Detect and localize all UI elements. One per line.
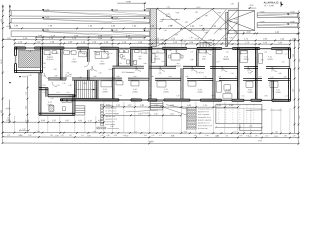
svg-text:+2,98: +2,98 [175,12,179,14]
svg-text:1,00: 1,00 [42,75,45,77]
svg-text:1,50: 1,50 [264,51,267,53]
window at top wall x=152 [152,47,162,49]
bottom wall left return [59,99,61,101]
svg-text:2,10: 2,10 [68,76,71,78]
svg-text:+1,98: +1,98 [290,21,294,23]
svg-text:Szoba: Szoba [102,91,107,93]
svg-text:0,60: 0,60 [114,135,117,137]
left vertical dimension line 2 [9,5,11,29]
svg-text:1,05: 1,05 [241,95,244,97]
svg-text:+2,98: +2,98 [174,34,178,36]
terrace bottom right [216,104,262,124]
svg-text:1,35: 1,35 [154,113,158,115]
svg-text:3,60: 3,60 [299,89,300,92]
roof beam bar 2 [11,18,150,23]
terrace left hatched wall strip [150,9,157,47]
svg-text:0,60: 0,60 [233,131,236,133]
svg-text:2,08: 2,08 [108,69,111,71]
bottom chain under lower wing [3,121,104,123]
svg-text:1,10: 1,10 [26,92,28,95]
svg-text:2,25: 2,25 [218,76,221,78]
window at bottom wall x=261.5 [261,99,271,101]
svg-text:1,50: 1,50 [195,12,198,14]
svg-text:0,90: 0,90 [169,50,172,52]
bottom chain under main body [104,106,238,108]
window at top wall x=25.5 [26,47,35,49]
svg-text:0,90: 0,90 [185,76,188,78]
svg-text:+4,50: +4,50 [114,9,118,11]
furniture room A4 bed [95,51,108,58]
left short vertical chain [9,100,11,122]
floor construction legend [187,108,197,110]
svg-text:2,55: 2,55 [293,89,295,92]
svg-text:4,50: 4,50 [205,32,208,34]
window at bottom wall x=157 [157,99,164,101]
window at bottom wall x=141.5 [141,99,147,101]
svg-text:+4,50: +4,50 [145,30,149,32]
svg-text:2,40: 2,40 [299,116,300,119]
svg-text:1,15: 1,15 [134,131,137,133]
svg-text:0,90: 0,90 [28,135,31,137]
svg-text:+3,48: +3,48 [45,17,49,19]
svg-text:1,50: 1,50 [217,61,220,63]
interior vertical walls [59,49,61,80]
steps outside lower wing [75,105,84,107]
svg-text:1,50: 1,50 [190,51,193,53]
svg-text:2,80: 2,80 [274,136,277,138]
svg-text:0,90: 0,90 [264,95,267,97]
svg-text:0,65: 0,65 [144,135,147,137]
svg-text:1,00: 1,00 [270,76,273,78]
svg-text:1,38: 1,38 [183,41,186,43]
svg-text:1,20: 1,20 [83,53,86,55]
svg-text:1,50: 1,50 [167,7,170,9]
svg-text:2,10: 2,10 [293,54,295,57]
bedroom 3 furniture [259,53,263,63]
svg-text:+4,50: +4,50 [249,5,254,7]
window at top wall x=118.5 [119,47,130,49]
svg-text:0,90: 0,90 [211,95,214,97]
notes leader [126,110,158,112]
svg-text:1,98: 1,98 [110,126,113,128]
roof beam bar 3 [11,31,150,37]
svg-text:1,18: 1,18 [7,135,10,137]
svg-text:1,20: 1,20 [209,50,212,52]
svg-text:+4,88: +4,88 [126,1,131,3]
svg-text:Szoba: Szoba [275,92,280,94]
right wall window [288,58,290,68]
bedroom 2 bed [240,50,248,62]
svg-text:Szoba: Szoba [247,92,252,94]
terrace under dimension [216,126,262,128]
svg-text:0,75: 0,75 [152,135,155,137]
terrace right boundary [237,2,239,46]
gable detail rectangle [228,11,255,31]
svg-text:1,10: 1,10 [284,95,287,97]
svg-text:2,10: 2,10 [42,85,45,87]
window at bottom wall x=221.5 [221,99,231,101]
svg-text:0,90: 0,90 [197,18,200,20]
svg-text:+4,50: +4,50 [146,9,150,11]
dining table [171,54,180,61]
svg-text:0,75: 0,75 [285,53,288,55]
svg-text:0,60: 0,60 [50,98,53,100]
bathroom fixtures [120,50,124,53]
svg-text:1,20: 1,20 [164,30,167,32]
svg-text:1,85: 1,85 [138,113,142,115]
svg-text:Fürdö: Fürdö [121,58,126,60]
svg-text:0,75: 0,75 [235,76,238,78]
svg-text:0,90: 0,90 [68,85,71,87]
svg-text:0,85: 0,85 [66,72,69,74]
svg-text:+2,98: +2,98 [45,9,49,11]
svg-text:1,50: 1,50 [258,76,261,78]
corridor top wall [113,65,144,67]
svg-text:5,00: 5,00 [234,22,238,24]
furniture room A2 [44,51,50,55]
svg-text:+4,50: +4,50 [113,30,117,32]
kitchen counter [152,50,165,53]
svg-text:3,60: 3,60 [1,110,3,114]
right roof bar A [257,13,298,18]
svg-text:0,45: 0,45 [160,21,163,23]
bottom witness lines [103,101,105,106]
svg-text:1,40: 1,40 [168,76,171,78]
svg-text:Szoba: Szoba [71,61,76,63]
svg-text:0,90: 0,90 [148,95,151,97]
svg-text:+4,50: +4,50 [146,17,150,19]
svg-text:1,00: 1,00 [88,69,91,71]
svg-text:Konyha: Konyha [154,58,160,60]
svg-text:Szoba: Szoba [163,91,168,93]
svg-text:0,80: 0,80 [37,131,40,133]
svg-text:0,90: 0,90 [93,76,96,78]
svg-text:1,80: 1,80 [170,113,174,115]
top wall continuity shading [15,47,290,50]
svg-text:+4,50: +4,50 [196,7,200,9]
svg-text:0,90: 0,90 [144,63,147,65]
svg-text:2,98: 2,98 [299,19,300,22]
gable triangle [229,11,255,21]
svg-text:0,75: 0,75 [56,92,59,94]
svg-text:1,20: 1,20 [93,131,96,133]
exterior bottom wall with windows [60,98,118,100]
svg-text:+2,98: +2,98 [44,29,48,31]
bottom wall continuity shading [60,99,289,102]
svg-text:1,20: 1,20 [119,63,122,65]
svg-text:4,65: 4,65 [171,135,174,137]
bottom full chain 1 [3,132,299,135]
svg-text:4,20: 4,20 [215,136,218,138]
svg-text:0,60: 0,60 [145,53,148,55]
plan top dimension chain 1 [36,36,146,38]
exterior top wall with windows [15,46,26,48]
svg-text:0,75: 0,75 [110,53,113,55]
svg-text:0,90: 0,90 [116,76,119,78]
svg-text:1,05: 1,05 [225,135,228,137]
svg-text:vb. koszorú: vb. koszorú [142,112,150,114]
left lower wing walls [38,73,40,115]
right vertical dimension of detail [298,10,300,137]
svg-text:0,87: 0,87 [293,135,296,137]
svg-text:20,36 m2: 20,36 m2 [47,59,54,61]
svg-text:3,28: 3,28 [53,69,56,71]
svg-text:±0,00: ±0,00 [6,108,11,110]
svg-text:1,50: 1,50 [226,51,229,53]
gable detail dimension line [228,32,299,34]
svg-text:1,50: 1,50 [43,67,46,69]
svg-text:4,50: 4,50 [205,15,208,17]
living room sofa [216,81,221,92]
svg-text:0,90: 0,90 [54,75,57,77]
window at top wall x=64 [64,47,77,49]
svg-text:1,05: 1,05 [265,135,268,137]
roof beam bar 1 [11,11,150,17]
svg-text:2,90: 2,90 [231,3,234,5]
svg-text:12,45 m2: 12,45 m2 [196,72,204,74]
svg-text:1,20: 1,20 [282,61,285,63]
svg-text:1,05: 1,05 [248,72,252,74]
boiler room equipment [49,105,54,111]
svg-text:1,50: 1,50 [190,37,193,39]
room below corridor furniture [101,81,112,87]
svg-text:5,60: 5,60 [234,19,238,21]
svg-text:0,90: 0,90 [283,76,286,78]
svg-text:4,10: 4,10 [299,59,300,62]
garage left wall window [14,56,16,64]
svg-text:3,60: 3,60 [26,106,28,109]
door arcs [66,74,72,80]
svg-text:Szoba: Szoba [267,59,272,61]
svg-text:+1,98: +1,98 [290,11,294,13]
svg-text:10,10: 10,10 [1,59,3,64]
svg-text:4,55: 4,55 [125,135,128,137]
svg-text:+1,38: +1,38 [260,21,264,23]
svg-text:terasz burkolat: terasz burkolat [270,109,282,112]
left vertical dimension line 1 [2,5,4,137]
notes block [100,104,103,106]
svg-text:0,45: 0,45 [230,37,233,39]
svg-text:1,50: 1,50 [185,22,188,24]
svg-text:1,88: 1,88 [78,77,81,79]
svg-text:2,98: 2,98 [43,63,46,65]
plan top dimension chain 3 (window chain) [15,42,290,45]
svg-text:3,63: 3,63 [19,135,22,137]
roof edge line [146,8,238,10]
bottom full chain 2 (totals) [3,136,299,139]
svg-text:Szoba: Szoba [243,59,248,61]
svg-text:0,70: 0,70 [159,135,162,137]
garage crosshatched floor [19,50,42,68]
svg-text:4,50: 4,50 [1,19,3,23]
svg-text:1,35: 1,35 [62,83,65,85]
bottom grand total line [3,142,299,145]
bottom chain secondary [104,114,181,116]
svg-text:Közl.: Közl. [202,59,207,61]
svg-text:+2,98: +2,98 [6,26,11,28]
terrace small dim line [160,19,180,21]
svg-text:0,95: 0,95 [158,73,161,75]
staircase [76,81,95,99]
right vertical dimension line inner [293,38,295,133]
svg-text:0,80: 0,80 [261,59,264,61]
svg-text:Szoba: Szoba [132,91,137,93]
furniture room A3 [64,51,70,55]
svg-text:1,30: 1,30 [69,135,72,137]
terrace big X diagonals [158,9,213,46]
svg-text:0,90: 0,90 [56,53,59,55]
corridor bottom wall [48,77,66,79]
window at top wall x=88.5 [89,47,101,49]
top witness lines [14,40,16,46]
svg-text:3,60: 3,60 [55,135,58,137]
wc fixtures [135,50,140,53]
svg-text:Terasz: Terasz [165,16,170,18]
right roof bar B [257,23,298,28]
svg-text:1,50: 1,50 [42,92,45,94]
svg-text:1,50: 1,50 [118,95,121,97]
chimney wall strip [225,12,227,46]
svg-text:2,98: 2,98 [170,25,173,27]
svg-text:+2,98: +2,98 [260,11,264,13]
svg-text:0,90: 0,90 [150,76,153,78]
svg-text:14,35: 14,35 [258,140,262,142]
svg-text:0,60: 0,60 [239,135,242,137]
svg-text:1,05: 1,05 [66,92,69,94]
svg-text:1,30: 1,30 [205,135,208,137]
svg-text:1,50: 1,50 [219,29,222,31]
svg-text:0,85: 0,85 [278,73,281,75]
legend leaders [166,105,187,110]
window at top wall x=221.5 [222,47,233,49]
garage left wall [14,47,16,56]
left middle vertical dimension chain [26,76,28,133]
svg-text:Étkezö: Étkezö [175,64,181,67]
dimension chain between beams [10,27,226,30]
window at bottom wall x=119 [119,99,131,101]
svg-text:1,40: 1,40 [230,73,233,75]
upper dimension line +4,88 [117,2,146,4]
svg-text:ALAPRAJZ: ALAPRAJZ [264,0,279,4]
svg-text:M = 1:100: M = 1:100 [265,5,275,7]
svg-text:5,48: 5,48 [28,75,31,77]
svg-text:0,90: 0,90 [275,132,278,134]
svg-text:1,20: 1,20 [176,95,179,97]
legend extra row pair left [97,127,106,129]
svg-text:0,35: 0,35 [101,135,104,137]
svg-text:1,05: 1,05 [299,43,300,46]
svg-text:2,70: 2,70 [115,113,119,115]
svg-text:1,30: 1,30 [56,85,59,87]
svg-text:0,90: 0,90 [68,96,71,98]
lower wing bathroom fixtures [62,99,67,103]
svg-text:0,45: 0,45 [200,25,203,27]
svg-text:1,20: 1,20 [98,72,101,74]
svg-text:0,90: 0,90 [284,135,287,137]
svg-text:+4,50: +4,50 [114,17,118,19]
svg-text:0,80: 0,80 [132,61,135,63]
window at top wall x=259.5 [260,47,272,49]
svg-text:+4,50: +4,50 [217,12,221,14]
garage bottom wall [15,70,43,72]
terrace leader note [246,109,266,112]
svg-text:1,05: 1,05 [162,61,165,63]
svg-text:24,88: 24,88 [148,141,154,143]
window at bottom wall x=190 [190,99,200,101]
svg-text:A.13 Közlekedö: A.13 Közlekedö [122,71,135,74]
hall closet [199,50,206,53]
svg-text:1,05: 1,05 [255,135,258,137]
svg-text:+1,45: +1,45 [22,76,27,78]
svg-text:0,85: 0,85 [184,131,187,133]
window at top wall x=186.5 [187,47,197,49]
svg-text:Szoba: Szoba [197,92,202,94]
window at bottom wall x=244 [244,99,251,101]
plan top dimension chain 2 (full width) [3,39,299,42]
svg-text:2,10: 2,10 [107,57,110,59]
north arrow [280,2,282,7]
svg-text:1,80: 1,80 [50,135,53,137]
svg-text:0,90: 0,90 [83,83,86,85]
svg-text:0,90: 0,90 [239,53,242,55]
svg-text:0,35: 0,35 [61,135,64,137]
entrance steps top x200 [199,43,201,48]
garage right wall [40,47,42,73]
svg-text:Nappali: Nappali [223,59,230,61]
svg-text:1,10: 1,10 [203,76,206,78]
svg-text:2,90: 2,90 [87,135,90,137]
svg-text:Szoba: Szoba [99,63,104,65]
rear steps x150 [150,101,162,103]
svg-text:Nappali: Nappali [225,92,232,94]
svg-text:0,90: 0,90 [191,59,194,61]
svg-text:2,10: 2,10 [133,76,136,78]
svg-text:vb. lemez 12 cm: vb. lemez 12 cm [105,110,117,112]
svg-text:2,40: 2,40 [248,136,251,138]
svg-text:0,85: 0,85 [107,135,110,137]
svg-text:1,15: 1,15 [81,135,84,137]
